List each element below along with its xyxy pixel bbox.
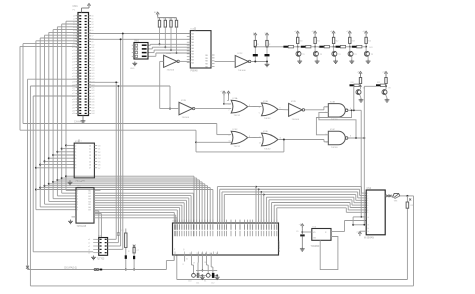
svg-text:IC4C: IC4C <box>330 129 335 131</box>
svg-text:4: 4 <box>75 152 76 154</box>
svg-text:17: 17 <box>89 168 91 170</box>
svg-text:3: 3 <box>75 149 76 151</box>
svg-text:a3: a3 <box>73 24 75 26</box>
svg-text:CN1-PA(0:2): CN1-PA(0:2) <box>64 266 77 269</box>
svg-text:s4: s4 <box>88 253 90 255</box>
svg-text:IC3A: IC3A <box>233 97 238 100</box>
svg-text:a25: a25 <box>72 87 75 89</box>
svg-text:11: 11 <box>89 149 91 151</box>
svg-text:4: 4 <box>326 107 327 109</box>
svg-text:R11: R11 <box>317 41 320 43</box>
svg-text:R4: R4 <box>169 19 171 21</box>
svg-text:M-3E4AN: M-3E4AN <box>364 237 374 240</box>
svg-text:C12: C12 <box>211 283 214 285</box>
svg-text:4: 4 <box>77 201 78 203</box>
svg-text:b27: b27 <box>92 93 95 95</box>
svg-text:IC2C: IC2C <box>238 53 243 55</box>
svg-text:a11: a11 <box>72 47 75 49</box>
svg-text:B2: B2 <box>89 196 91 198</box>
svg-text:b29: b29 <box>92 99 95 101</box>
svg-text:4: 4 <box>259 107 260 109</box>
svg-text:13: 13 <box>259 142 261 144</box>
svg-text:a18: a18 <box>72 67 75 69</box>
svg-text:X1: X1 <box>204 281 206 283</box>
svg-text:12: 12 <box>89 152 91 154</box>
svg-text:B5: B5 <box>89 204 91 206</box>
svg-text:6: 6 <box>77 207 78 209</box>
svg-text:5: 5 <box>259 112 260 114</box>
svg-text:R21: R21 <box>377 82 380 84</box>
svg-text:a19: a19 <box>72 70 75 72</box>
svg-text:a17: a17 <box>72 64 75 66</box>
svg-text:a33: a33 <box>72 110 75 112</box>
svg-text:a7: a7 <box>73 36 75 38</box>
svg-text:2: 2 <box>77 196 78 198</box>
svg-text:2: 2 <box>229 110 230 112</box>
svg-text:b32: b32 <box>92 107 95 109</box>
svg-text:D4: D4 <box>98 158 100 160</box>
svg-text:a30: a30 <box>72 102 75 104</box>
svg-text:IC3B: IC3B <box>263 101 268 103</box>
svg-text:a27: a27 <box>72 93 75 95</box>
svg-text:15: 15 <box>89 161 91 163</box>
svg-text:b28: b28 <box>92 96 95 98</box>
svg-text:B3: B3 <box>89 199 91 201</box>
svg-text:a21: a21 <box>72 76 75 78</box>
svg-text:D2: D2 <box>98 152 100 154</box>
svg-text:18: 18 <box>204 262 206 264</box>
svg-text:D6: D6 <box>98 165 100 167</box>
svg-text:B4: B4 <box>89 201 91 203</box>
svg-text:R5: R5 <box>174 19 176 21</box>
svg-text:74HC244: 74HC244 <box>75 181 85 183</box>
svg-text:R13: R13 <box>351 41 354 43</box>
svg-text:b21: b21 <box>92 76 95 78</box>
svg-text:13: 13 <box>89 155 91 157</box>
svg-text:a29: a29 <box>72 99 75 101</box>
svg-text:a6: a6 <box>73 33 75 35</box>
svg-text:a12: a12 <box>72 50 75 52</box>
svg-text:a8: a8 <box>73 39 75 41</box>
svg-text:74C32: 74C32 <box>234 115 241 117</box>
svg-text:TCM809: TCM809 <box>311 246 321 248</box>
svg-text:5: 5 <box>77 204 78 206</box>
svg-text:8: 8 <box>75 165 76 167</box>
svg-text:16: 16 <box>89 165 91 167</box>
svg-text:b22: b22 <box>92 79 95 81</box>
svg-text:IC4B: IC4B <box>330 101 335 103</box>
svg-text:b12: b12 <box>92 50 95 52</box>
svg-text:a26: a26 <box>72 90 75 92</box>
svg-text:a0: a0 <box>73 16 75 18</box>
svg-text:b11: b11 <box>92 47 95 49</box>
svg-text:b4: b4 <box>92 27 94 29</box>
svg-text:b18: b18 <box>92 67 95 69</box>
svg-text:IC3D: IC3D <box>263 131 268 133</box>
svg-text:b0: b0 <box>92 16 94 18</box>
svg-text:D0: D0 <box>98 145 100 147</box>
svg-text:CN1: CN1 <box>73 4 79 8</box>
svg-text:s0: s0 <box>88 239 90 241</box>
svg-text:R2: R2 <box>157 19 159 21</box>
svg-text:14: 14 <box>89 158 91 160</box>
svg-text:74C32: 74C32 <box>264 148 271 150</box>
svg-text:b31: b31 <box>92 105 95 107</box>
svg-text:X2: X2 <box>190 253 192 255</box>
svg-text:R14: R14 <box>368 41 371 43</box>
svg-text:10: 10 <box>326 142 328 144</box>
svg-text:SW1: SW1 <box>134 41 140 43</box>
svg-text:b2: b2 <box>92 21 94 23</box>
svg-text:b7: b7 <box>92 36 94 38</box>
svg-text:a16: a16 <box>72 62 75 64</box>
svg-text:C10: C10 <box>188 281 191 283</box>
svg-text:AL: AL <box>205 252 207 255</box>
svg-text:6: 6 <box>75 158 76 160</box>
svg-text:b15: b15 <box>92 59 95 61</box>
svg-text:a15: a15 <box>72 59 75 61</box>
svg-text:b34: b34 <box>92 113 95 115</box>
svg-text:1: 1 <box>229 104 230 106</box>
svg-text:5: 5 <box>75 155 76 157</box>
svg-text:P8048: P8048 <box>191 70 199 73</box>
svg-text:s3: s3 <box>88 249 90 251</box>
svg-text:a5: a5 <box>73 30 75 32</box>
svg-text:7: 7 <box>75 161 76 163</box>
svg-text:9: 9 <box>75 168 76 170</box>
svg-text:b16: b16 <box>92 62 95 64</box>
svg-text:a14: a14 <box>72 56 75 58</box>
svg-text:10: 10 <box>89 145 91 147</box>
svg-text:a32: a32 <box>72 107 75 109</box>
svg-text:b3: b3 <box>92 24 94 26</box>
svg-text:R3: R3 <box>163 19 165 21</box>
svg-text:CN2: CN2 <box>367 188 372 190</box>
svg-text:D3: D3 <box>98 155 100 157</box>
svg-text:a4: a4 <box>73 27 75 29</box>
svg-text:9: 9 <box>229 135 230 137</box>
svg-text:8: 8 <box>350 136 351 138</box>
svg-text:b25: b25 <box>92 87 95 89</box>
svg-text:AT90S8515: AT90S8515 <box>278 240 281 252</box>
svg-text:b5: b5 <box>92 30 94 32</box>
svg-text:a23: a23 <box>72 82 75 84</box>
svg-text:b30: b30 <box>92 102 95 104</box>
svg-text:B7: B7 <box>89 210 91 212</box>
svg-text:b17: b17 <box>92 64 95 66</box>
svg-text:12: 12 <box>259 137 261 139</box>
svg-text:IC2B: IC2B <box>181 100 186 102</box>
svg-text:0: 0 <box>77 190 78 192</box>
svg-text:a31: a31 <box>72 105 75 107</box>
svg-text:1: 1 <box>81 141 82 143</box>
svg-text:a1: a1 <box>73 18 75 20</box>
svg-text:6: 6 <box>350 108 351 110</box>
svg-text:s1: s1 <box>88 243 90 245</box>
svg-text:D1: D1 <box>98 149 100 151</box>
svg-text:b1: b1 <box>92 18 94 20</box>
svg-text:D5: D5 <box>98 161 100 163</box>
svg-text:a34: a34 <box>72 113 75 115</box>
svg-text:IC2A: IC2A <box>166 52 171 55</box>
svg-text:74C32: 74C32 <box>234 146 241 148</box>
svg-text:b10: b10 <box>92 44 95 46</box>
svg-text:C11: C11 <box>196 283 199 285</box>
svg-text:b13: b13 <box>92 53 95 55</box>
svg-text:b26: b26 <box>92 90 95 92</box>
svg-text:74C32: 74C32 <box>264 118 271 120</box>
svg-text:g: g <box>183 264 184 266</box>
svg-text:74LS04: 74LS04 <box>182 117 190 119</box>
svg-text:74C00: 74C00 <box>331 147 338 149</box>
svg-text:B0: B0 <box>89 190 91 192</box>
svg-text:a20: a20 <box>72 73 75 75</box>
svg-text:74LS06: 74LS06 <box>167 70 175 72</box>
svg-text:19: 19 <box>193 263 195 265</box>
svg-text:10: 10 <box>229 141 231 143</box>
svg-text:b9: b9 <box>92 41 94 43</box>
svg-text:b33: b33 <box>92 110 95 112</box>
svg-text:1: 1 <box>77 193 78 195</box>
svg-text:R20: R20 <box>351 82 354 84</box>
svg-text:R10: R10 <box>299 41 302 43</box>
svg-text:b14: b14 <box>92 56 95 58</box>
svg-text:31: 31 <box>186 259 188 261</box>
svg-text:GND: GND <box>130 68 135 70</box>
svg-text:TL7705: TL7705 <box>97 259 106 261</box>
svg-text:B1: B1 <box>89 193 91 195</box>
svg-text:C9: C9 <box>296 231 298 233</box>
svg-text:X1: X1 <box>197 253 199 255</box>
svg-text:74LS04: 74LS04 <box>292 119 300 121</box>
svg-text:74HC245: 74HC245 <box>77 226 87 228</box>
svg-text:a9: a9 <box>73 41 75 43</box>
svg-text:2: 2 <box>75 145 76 147</box>
svg-text:s2: s2 <box>88 246 90 248</box>
svg-text:3: 3 <box>77 199 78 201</box>
svg-text:IC2D: IC2D <box>291 101 296 103</box>
svg-text:b20: b20 <box>92 73 95 75</box>
svg-text:D7: D7 <box>98 168 100 170</box>
svg-text:7: 7 <box>77 210 78 212</box>
svg-text:9: 9 <box>367 212 368 214</box>
svg-text:a13: a13 <box>72 53 75 55</box>
svg-text:R12: R12 <box>335 41 338 43</box>
svg-text:B6: B6 <box>89 207 91 209</box>
svg-text:74LS06: 74LS06 <box>238 70 246 72</box>
svg-text:IC3C: IC3C <box>233 129 238 131</box>
svg-text:b19: b19 <box>92 70 95 72</box>
